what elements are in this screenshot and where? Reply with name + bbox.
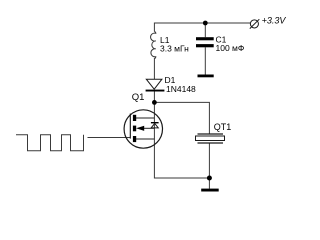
- svg-text:+3.3V: +3.3V: [262, 16, 287, 26]
- svg-text:3.3 мГн: 3.3 мГн: [160, 44, 189, 54]
- svg-text:QT1: QT1: [214, 122, 232, 132]
- svg-text:Q1: Q1: [132, 92, 145, 103]
- svg-text:100 мФ: 100 мФ: [216, 43, 245, 53]
- svg-text:1N4148: 1N4148: [166, 84, 196, 94]
